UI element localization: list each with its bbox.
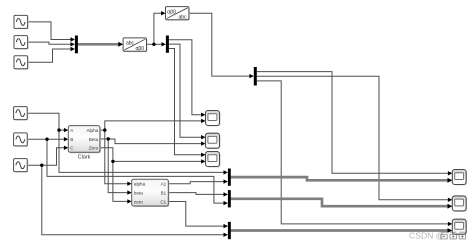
junction JC [40,164,43,167]
subsystem inverse Clark [132,179,170,207]
svg-text:Clark: Clark [78,154,91,160]
wire Clark Alpha to node JAL [100,129,105,131]
wire node JAL up to Scope1 in2 [105,121,202,130]
wire node JZE down to invClark zero [113,161,128,201]
wire thick Mux4 out to ScopeC in2 [231,229,449,232]
wire node JA down to Mux2 in1 [59,130,224,172]
svg-text:alpha: alpha [134,182,146,187]
junction JAL [103,128,106,131]
scope Scope2 [206,133,221,149]
wire node JBE to Scope2 in2 [108,139,201,144]
junction JB [45,138,48,141]
wire node JAL down to invClark alpha [105,130,128,184]
svg-text:αβ0: αβ0 [136,46,145,52]
arrowheads into Scope3 [201,153,205,164]
svg-text:B1: B1 [161,191,167,196]
wire invClark B1 to Mux3 in1 [168,193,224,195]
wire Demux1 out1 to Scope1 in1 [169,40,202,115]
source Sine Wave 3 [14,56,29,70]
demux Demux1 [166,36,169,53]
wire abc2ab0 out to node J1 to Demux1 in [147,43,162,45]
arrowhead into ab02abc [161,11,165,15]
transform block alphabeta0 to abc [166,7,190,21]
wire Demux2 out2 to ScopeB in1 [257,76,449,200]
watermark CSDN [409,231,466,241]
svg-text:beta: beta [134,191,143,196]
wire Sine2 to Mux1 in2 [28,42,71,44]
mux Mux4 [228,222,231,239]
svg-text:abc: abc [126,41,135,47]
wire Clark Zero to node JZE [100,148,113,162]
svg-text:C1: C1 [160,199,166,204]
demux Demux2 [254,67,257,86]
wire Sine4 to Clark A with node JA [28,113,65,130]
wire node JBE down to invClark beta [108,139,128,193]
mux Mux1 [75,36,78,54]
wire thick Mux1 out to abc2ab0 in [78,43,119,46]
wire thick Mux3 out to ScopeB in2 [231,199,449,206]
wire invClark C1 to Mux4 in1 [168,202,224,227]
junction J1 [152,43,155,46]
svg-text:CSDN @: CSDN @ [409,231,444,241]
arrowheads into Mux3 [224,192,228,205]
junction JBE [107,137,110,140]
subsystem Clark [68,126,101,161]
wire node JB down to Mux3 in2 [47,139,224,203]
scope Scope1 [206,111,221,127]
wire Sine6 to Clark C with node JC [28,148,65,165]
arrowheads into invClark alpha beta zero [127,182,131,204]
svg-text:B: B [70,137,73,142]
wire node JC down to Mux4 in2 [42,165,224,235]
scope ScopeC [452,219,467,235]
wire node J1 up to ab02abc in [154,13,162,44]
transform block abc to alphabeta0 [123,38,147,52]
arrowheads into Scope2 [201,135,205,146]
svg-text:zero: zero [134,199,143,204]
wire Demux2 out3 to ScopeC in1 [257,81,449,224]
wire Sine1 to Mux1 in1 [28,22,71,40]
arrowhead into Demux1 [162,42,166,46]
wire node JZE to Scope3 in2 [113,160,202,162]
source Sine Wave 4 [14,107,29,121]
source Sine Wave 6 [14,159,29,173]
arrowheads into Mux2 [224,170,228,184]
mux Mux2 [228,169,231,186]
svg-text:Beta: Beta [89,137,99,142]
wire Sine5 to Clark B with node JB [28,138,65,140]
source Sine Wave 1 [14,15,29,29]
wire Clark Beta to node JBE [100,138,108,140]
wire Demux2 out1 to ScopeA in1 [257,72,449,174]
svg-text:abc: abc [179,15,188,21]
source Sine Wave 5 [14,133,29,147]
source Sine Wave 2 [14,36,29,50]
wire Demux1 out2 to Scope2 in1 [169,44,202,137]
arrowhead into Demux2 [249,74,253,78]
arrowheads into ScopeB [448,198,453,209]
svg-text:Zero: Zero [89,146,99,151]
arrowheads into Clark A B C [64,128,68,150]
scope ScopeA [452,170,467,186]
junction JZE [111,160,114,163]
svg-text:Alpha: Alpha [86,128,98,133]
wire ab02abc out down to Demux2 in [189,13,250,76]
arrowhead into abc2ab0 [118,42,123,47]
wire thick Mux2 out to ScopeA in2 [231,177,449,180]
svg-text:A1: A1 [161,182,167,187]
arrowheads into ScopeC [448,222,453,233]
mux Mux3 [228,190,231,207]
wire Sine3 to Mux1 in3 [28,49,71,62]
wire invClark A1 to Mux2 in2 [168,182,224,184]
arrowheads into Mux4 [224,224,228,237]
wire Demux1 out3 to Scope3 in1 [169,49,202,155]
scope Scope3 [206,152,221,168]
arrowheads into Scope1 [201,113,205,124]
arrowheads into ScopeA [448,171,453,183]
junction JA [57,128,60,131]
scope ScopeB [452,196,467,212]
svg-text:αβ0: αβ0 [167,9,176,15]
arrowheads into Mux1 [71,37,75,51]
